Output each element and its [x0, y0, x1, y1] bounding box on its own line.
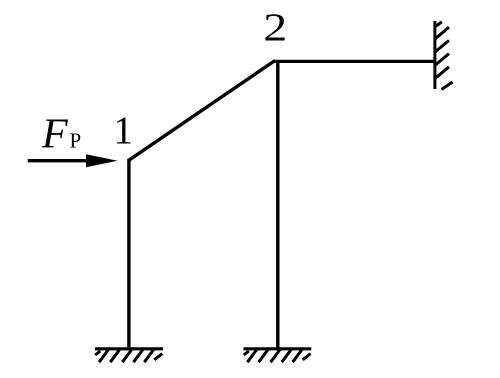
right fixed support hatches — [244, 350, 311, 363]
wall support vertical line — [433, 21, 436, 89]
left fixed support hatches — [95, 350, 162, 363]
svg-text:F: F — [41, 112, 68, 158]
left fixed support ground line — [95, 347, 163, 350]
force FP label — [41, 112, 81, 158]
wire inclined member 1-2 — [128, 61, 275, 161]
wire top horizontal member (node 2 to wall) — [274, 60, 437, 63]
force FP arrow — [28, 154, 118, 167]
svg-text:P: P — [70, 129, 82, 153]
svg-text:1: 1 — [114, 109, 134, 152]
wire left column (node 1 to left support) — [127, 159, 130, 350]
right fixed support ground line — [244, 347, 312, 350]
wire right column (node 2 to right support) — [276, 60, 279, 350]
wall support hatches — [435, 22, 453, 90]
svg-text:2: 2 — [263, 6, 287, 49]
